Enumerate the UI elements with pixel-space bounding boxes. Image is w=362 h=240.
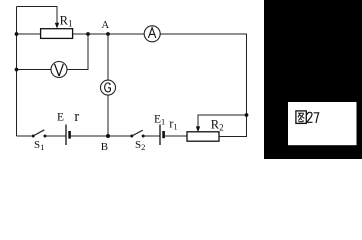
node: slider branch / right rail — [245, 113, 249, 117]
svg-text:E: E — [57, 112, 64, 124]
svg-text:A: A — [102, 20, 110, 31]
wire: A to galvanometer — [107, 34, 109, 80]
node: voltmeter branch top junction — [86, 32, 90, 36]
svg-text:B: B — [101, 141, 108, 153]
wire: main top wire R1 to ammeter — [73, 33, 145, 35]
wire: voltmeter branch left — [17, 69, 52, 71]
caption white box — [288, 102, 357, 145]
wire: slider top bracket over R1 — [17, 7, 58, 25]
resistor R2 (rheostat box) — [187, 132, 219, 141]
galvanometer G — [101, 80, 116, 95]
node: left rail / top wire junction — [15, 32, 19, 36]
switch S1 — [32, 130, 47, 138]
wire: battery E1 to R2 — [165, 135, 187, 137]
battery E r — [66, 125, 70, 146]
wire: battery E to B to S2 — [71, 135, 132, 137]
wire: voltmeter branch right + up — [67, 34, 88, 70]
node: left rail / voltmeter junction — [15, 68, 19, 72]
slider arrowhead onto R1 — [55, 23, 59, 29]
caption text 27 — [307, 112, 319, 123]
node A — [106, 32, 110, 36]
switch S2 — [130, 130, 144, 137]
node B — [106, 134, 110, 138]
wire: main top wire left of R1 — [17, 33, 41, 35]
slider arrowhead onto R2 — [196, 126, 200, 132]
wire: R2 to right rail — [219, 136, 247, 138]
wire: S2 to battery E1 — [143, 135, 159, 137]
ammeter U-A — [144, 26, 160, 42]
wire: S1 to battery E — [45, 135, 66, 137]
wire: left vertical rail — [16, 7, 18, 137]
resistor R1 (rheostat box) — [41, 29, 73, 39]
caption black block — [264, 0, 362, 159]
wire: top wire ammeter to right rail — [160, 33, 247, 35]
svg-text:r: r — [74, 109, 79, 125]
voltmeter U-V — [51, 62, 67, 78]
wire: right vertical rail — [246, 34, 248, 137]
wire: bottom wire left of S1 — [17, 135, 34, 137]
wire: R2 slider branch — [198, 115, 247, 127]
wire: galvanometer to B — [107, 95, 109, 136]
caption glyph 图 (drawn) — [296, 111, 306, 124]
battery E1 r1 — [160, 125, 164, 146]
